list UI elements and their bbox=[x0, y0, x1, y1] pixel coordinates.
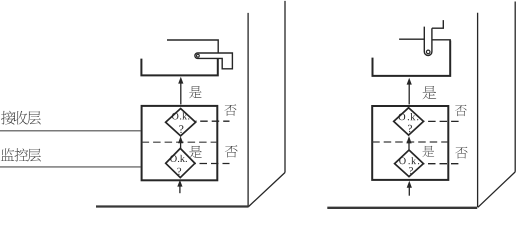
label no (right upper) bbox=[455, 105, 467, 116]
lever pivot bbox=[197, 54, 200, 57]
label no (left lower) bbox=[225, 145, 238, 157]
label yes (left middle) bbox=[189, 146, 202, 158]
pendulum top hook (right station) bbox=[432, 20, 443, 28]
dashed layer divider (left box) bbox=[142, 141, 218, 143]
arrow between diamonds (right) bbox=[408, 143, 410, 150]
receiving bin (left station) bbox=[141, 59, 217, 76]
dashed reject line lower (right) bbox=[428, 163, 458, 165]
wall front edge (far right) bbox=[477, 13, 479, 208]
dashed layer divider (right box) bbox=[372, 141, 448, 143]
dashed reject line lower (left) bbox=[200, 163, 230, 165]
wall back edge (middle) bbox=[284, 1, 286, 173]
label yes (left upper) bbox=[189, 86, 202, 98]
label no (right lower) bbox=[455, 147, 467, 159]
decision diamond O.K. upper (right) bbox=[394, 108, 424, 135]
decision diamond O.K. upper (left) bbox=[166, 109, 196, 136]
wall base diagonal (far right) bbox=[478, 172, 515, 207]
decision diamond O.K. lower (right) bbox=[395, 150, 424, 177]
label yes (right upper) bbox=[422, 86, 436, 99]
pendulum bar with rounded bottom (right station) bbox=[424, 27, 432, 56]
receiving bin (right station) bbox=[373, 41, 451, 76]
floor line (left station) bbox=[96, 205, 249, 207]
arrow bin-to-pendulum (right) bbox=[408, 84, 410, 104]
decision diamond O.K. lower (left) bbox=[166, 148, 195, 177]
wall back edge (far right) bbox=[514, 2, 516, 172]
label receiving layer bbox=[1, 111, 15, 125]
hopper top feed line (left station) bbox=[167, 40, 218, 53]
inspection box (right station) bbox=[372, 106, 448, 180]
tipping lever with hook (left station) bbox=[195, 53, 232, 69]
dashed reject line upper (right) bbox=[428, 120, 460, 122]
label no (left upper) bbox=[224, 104, 236, 116]
beam right segment (right station) bbox=[432, 39, 451, 41]
dashed reject line upper (left) bbox=[200, 120, 229, 122]
leader line monitoring layer bbox=[0, 166, 141, 168]
floor line (right station) bbox=[327, 207, 477, 209]
inspection box (left station) bbox=[142, 106, 218, 180]
label monitoring layer bbox=[1, 148, 14, 161]
leader line receiving layer bbox=[0, 130, 141, 132]
wall front edge (middle) bbox=[247, 13, 249, 207]
label yes (right middle) bbox=[422, 146, 434, 157]
arrow feed-in below box (right) bbox=[408, 187, 410, 195]
arrow bin-to-lever (left) bbox=[180, 83, 182, 105]
beam left segment (right station) bbox=[399, 38, 424, 40]
arrow feed-in below box (left) bbox=[179, 186, 181, 193]
pendulum pivot bbox=[426, 50, 430, 54]
wall base diagonal (middle) bbox=[249, 173, 286, 207]
arrow between diamonds (left) bbox=[180, 143, 182, 148]
